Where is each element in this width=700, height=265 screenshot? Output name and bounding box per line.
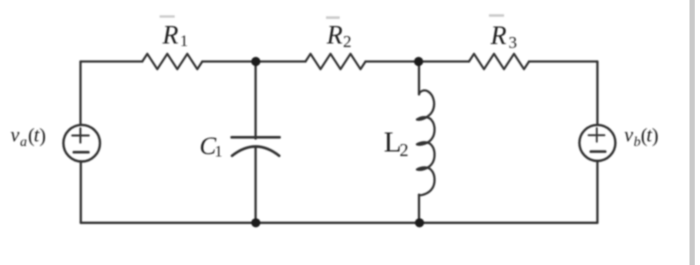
resistor R2 (306, 54, 366, 69)
artifact smudge above R1 (160, 15, 175, 17)
bottom junction dot under C1 (251, 218, 260, 227)
svg-text:R: R (162, 20, 179, 49)
wire left rail upper (79, 62, 81, 126)
wire right rail upper (596, 62, 598, 126)
svg-text:b: b (634, 135, 641, 150)
inductor L2 coil (417, 90, 435, 195)
wire capacitor branch lower (254, 147, 256, 223)
wire right rail lower (596, 161, 598, 223)
svg-text:2: 2 (400, 140, 409, 160)
node B junction dot (414, 57, 423, 66)
resistor R1 (142, 54, 202, 69)
svg-text:1: 1 (180, 33, 188, 50)
svg-text:1: 1 (215, 144, 223, 161)
wire bottom rail (81, 222, 598, 224)
svg-text:R: R (490, 21, 507, 50)
wire R2 to node B (366, 60, 419, 62)
capacitor C1 curved plate (232, 147, 279, 156)
svg-text:): ) (39, 125, 46, 147)
artifact smudge above R2 (326, 16, 340, 19)
wire inductor branch lower (418, 195, 420, 223)
svg-text:R: R (326, 20, 343, 49)
resistor R3 (469, 54, 529, 69)
wire R3 to top-right corner (529, 60, 597, 62)
source Va circle (63, 125, 100, 162)
svg-text:v: v (11, 125, 20, 147)
svg-text:v: v (624, 125, 633, 147)
wire node A to R2 (256, 60, 306, 62)
wire capacitor branch upper (254, 62, 256, 139)
capacitor C1 top plate (232, 136, 280, 139)
scrollbar band at right edge (690, 0, 695, 265)
source Vb minus sign (591, 150, 605, 153)
svg-text:2: 2 (343, 32, 352, 51)
source Vb circle (579, 125, 615, 161)
artifact smudge above R3 (489, 14, 504, 17)
node A junction dot (251, 57, 260, 66)
source Vb plus sign (589, 128, 605, 142)
svg-text:): ) (652, 125, 659, 147)
svg-text:3: 3 (509, 33, 518, 52)
wire inductor branch upper (418, 62, 420, 95)
wire R1 to node A (202, 60, 255, 62)
source Va minus sign (74, 151, 89, 154)
wire top rail left segment (81, 60, 143, 62)
wire left rail lower (80, 161, 82, 222)
svg-text:a: a (20, 135, 27, 150)
wire node B to R3 (419, 60, 470, 62)
bottom junction dot under L2 (415, 218, 424, 227)
source Va plus sign (72, 128, 89, 142)
